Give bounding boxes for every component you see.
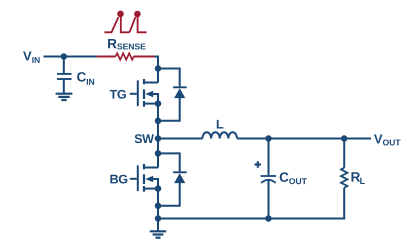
resistor R_SENSE: [116, 53, 134, 59]
junction dot COUT bottom: [265, 215, 272, 222]
junction dot BG source: [155, 185, 162, 192]
node VIN label: [23, 52, 39, 63]
junction dot TG diode bottom: [155, 118, 162, 125]
wire SW to inductor: [158, 138, 203, 140]
wire inductor to VOUT: [237, 138, 371, 140]
capacitor C_IN: [57, 57, 72, 94]
transistor TG mosfet: [130, 79, 158, 107]
node VOUT label: [374, 135, 401, 146]
wire BG source to ground rail: [157, 189, 159, 219]
inductor L: [203, 132, 238, 138]
transistor BG mosfet: [130, 164, 158, 192]
wire BG diode branch top: [158, 153, 180, 171]
ground under C_IN: [56, 94, 73, 100]
label BG: [110, 175, 127, 184]
diode D2 body of BG: [173, 172, 187, 183]
label R_SENSE: [108, 39, 145, 50]
junction dot BG diode bottom: [155, 203, 162, 210]
label R_L: [352, 172, 365, 184]
junction VIN / CIN dot: [61, 53, 68, 60]
kelvin sense clip symbol left: [104, 11, 129, 33]
wire COUT branch lower: [268, 180, 270, 218]
label C_IN: [77, 72, 94, 85]
junction dot TG source: [155, 100, 162, 107]
ground under BG: [150, 231, 166, 237]
label SW: [135, 134, 154, 143]
wire RL branch upper: [343, 139, 345, 168]
wire TG diode branch bottom: [158, 98, 180, 121]
label TG: [110, 90, 126, 99]
wire corner into TG drain: [154, 57, 158, 83]
junction dot TG drain / diode tap: [155, 65, 162, 72]
junction dot SW: [155, 135, 162, 142]
junction dot BG diode tap: [155, 150, 162, 157]
wire RL bottom corner and ground rail: [158, 188, 344, 219]
plus sign of C_OUT: [255, 161, 261, 167]
wire red after R_SENSE: [134, 56, 156, 58]
capacitor C_OUT polarized: [261, 176, 276, 183]
label C_OUT: [280, 172, 307, 184]
wire COUT branch upper: [268, 139, 270, 176]
wire TG diode branch top: [158, 69, 180, 87]
wire red to R_SENSE: [97, 56, 116, 58]
junction dot RL tap: [341, 135, 348, 142]
diode D1 body of TG: [173, 87, 187, 98]
wire main vertical TG source to BG drain: [157, 104, 159, 168]
kelvin sense clip symbol right: [130, 11, 147, 33]
resistor R_L: [341, 168, 347, 188]
wire VIN rail blue: [44, 56, 97, 58]
junction dot COUT tap: [265, 135, 272, 142]
wire ground stem: [157, 219, 159, 232]
wire BG diode branch bottom: [158, 183, 180, 206]
label L: [217, 120, 224, 129]
junction dot ground rail: [155, 215, 162, 222]
